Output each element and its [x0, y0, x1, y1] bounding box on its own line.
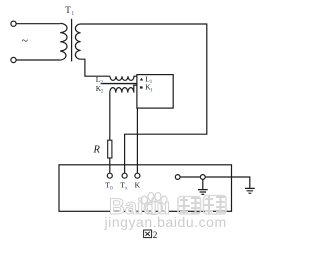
terminal (source top) — [11, 21, 16, 26]
terminal D1 — [175, 175, 180, 180]
svg-text:0: 0 — [110, 185, 113, 191]
wire (ground stem of terminal D2) — [202, 179, 204, 190]
terminal K — [135, 173, 140, 178]
wire (T1 secondary top around right side down to terminal Tx) — [81, 24, 207, 173]
terminal D2 — [200, 175, 205, 180]
svg-text:1: 1 — [71, 11, 74, 17]
terminal (source bottom) — [11, 57, 16, 62]
transformer T1 primary winding — [60, 23, 67, 60]
ground (external earth) — [245, 188, 255, 193]
svg-text:jingyan.baidu.com: jingyan.baidu.com — [104, 214, 227, 230]
calibrator box — [59, 165, 232, 212]
wire (input bottom) — [16, 59, 60, 61]
current transformer secondary winding K2-K1 — [110, 85, 137, 92]
svg-text:x: x — [125, 185, 128, 191]
transformer T1 core — [71, 19, 73, 62]
polarity mark L1 — [140, 78, 143, 81]
wire (T1 secondary bottom to CT primary L2) — [81, 59, 110, 76]
svg-text:~: ~ — [22, 34, 29, 48]
wire (resistor to terminal T0) — [109, 158, 111, 173]
current transformer primary winding L2-L1 — [110, 76, 137, 80]
ground (calibrator earth) — [198, 190, 208, 195]
current transformer core — [101, 83, 137, 85]
wire (K2 down to resistor R) — [109, 93, 111, 141]
terminal T0 — [107, 173, 112, 178]
caption glyph tu — [144, 230, 152, 238]
svg-text:R: R — [93, 145, 101, 156]
svg-text:K: K — [135, 181, 141, 190]
terminal Tx — [122, 173, 127, 178]
wire (input top) — [16, 23, 60, 25]
svg-text:2: 2 — [101, 89, 104, 95]
transformer T1 secondary winding — [75, 24, 80, 59]
watermark paw icon — [142, 193, 168, 215]
svg-text:T: T — [65, 5, 71, 15]
wire (right terminals to external earth) — [178, 177, 250, 188]
polarity mark K1 — [140, 86, 143, 88]
watermark jingyan characters — [178, 196, 226, 215]
svg-text:2: 2 — [153, 231, 158, 241]
resistor R — [108, 140, 112, 158]
svg-text:1: 1 — [150, 87, 153, 93]
watermark baidu logo text — [109, 194, 170, 219]
wire (K1 box down to calibrator terminal K) — [136, 108, 138, 173]
terminal box around L1 K1 — [137, 75, 173, 109]
